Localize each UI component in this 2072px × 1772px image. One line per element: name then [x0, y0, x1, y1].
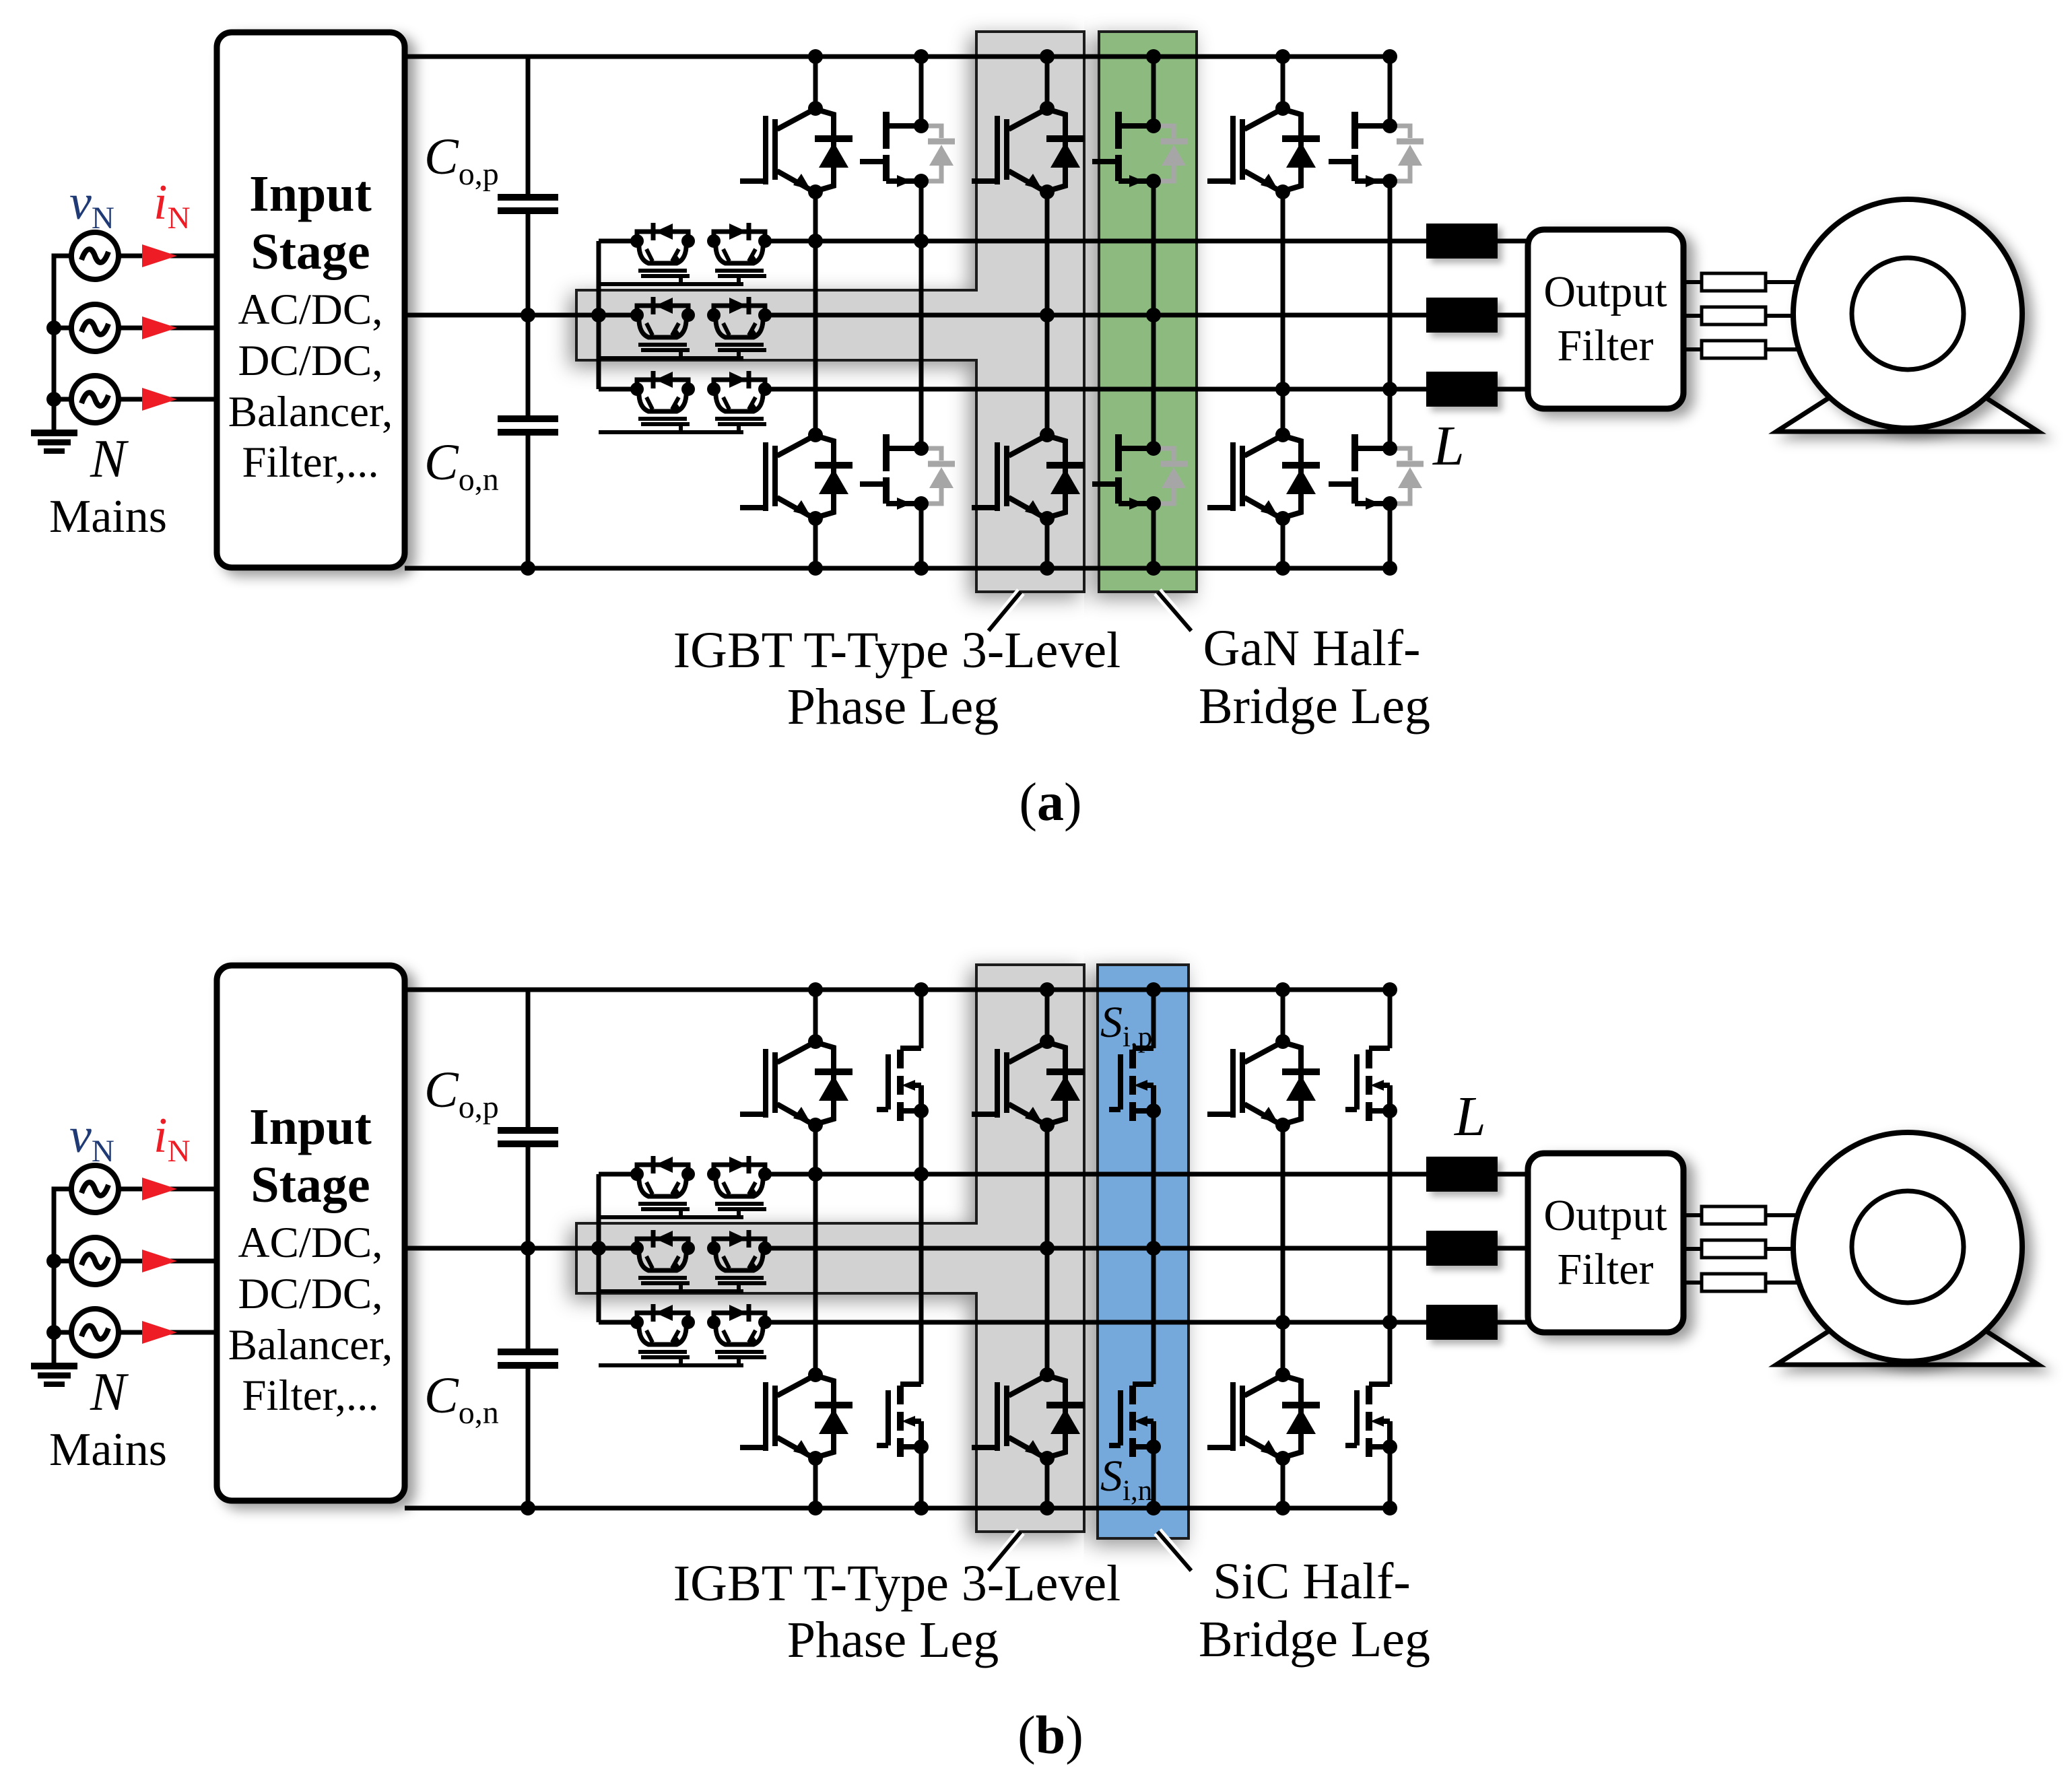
node: capacitor midpoint junction (a) [521, 308, 535, 322]
node: IGBT leg 2 rail junctions (a) [1040, 49, 1055, 64]
inductor L phase 3 (b) [1426, 1305, 1498, 1340]
node: phase2 row junctions (a) [1040, 308, 1055, 322]
node: IGBT leg 2 rail junctions (b) [1040, 982, 1055, 997]
wire: half-bridge leg 2 vertical (b) [1151, 990, 1156, 1048]
wire: Co,p (b) lower lead [526, 1147, 531, 1248]
node: half-bridge leg 2 rail junctions (b) [1146, 982, 1161, 997]
svg-text:Bridge Leg: Bridge Leg [1199, 678, 1430, 735]
svg-text:Balancer,: Balancer, [228, 1321, 393, 1369]
wire: phase 3 inductor-to-filter lead (b) [1498, 1320, 1528, 1325]
wire: bidirectional switch row 3 left lead (b) [599, 1320, 637, 1325]
inductor L phase 1 (b) [1426, 1157, 1498, 1192]
transistor IGBT T2n with diode (a) [972, 436, 1084, 517]
inductor L phase 2 (a) [1426, 298, 1498, 333]
wire: phase 1 inductor-to-filter lead (b) [1498, 1172, 1528, 1177]
transistor bidirectional S2a (a) [637, 306, 690, 350]
wire: phase 2 output row (b) [765, 1246, 1426, 1251]
svg-text:Filter: Filter [1558, 321, 1654, 370]
transistor GaN Q3p with body diode (a) [1392, 126, 1424, 181]
wire: DC midpoint rail (b) [405, 1246, 637, 1251]
voltage source V1 (b) [71, 1165, 119, 1213]
wire: half-bridge leg 1 vertical (b) [919, 990, 924, 1048]
transistor SiC Q3p (b) [1345, 1048, 1390, 1121]
svg-text:IGBT T-Type 3-Level: IGBT T-Type 3-Level [673, 1555, 1121, 1612]
transistor GaN Q1p with body diode (a) [923, 126, 955, 181]
wire: IGBT leg 1 vertical (a) [813, 57, 818, 108]
wire: bidirectional switch row 1 left lead (b) [599, 1172, 637, 1177]
transistor IGBT T3n with diode (a) [1207, 436, 1320, 517]
wire: positive DC rail (b) [405, 988, 1390, 992]
transistor SiC Q2n (b) [1109, 1384, 1154, 1457]
wire: phase 1 output row (b) [765, 1172, 1426, 1177]
node: half-bridge leg 3 rail junctions (a) [1382, 49, 1397, 64]
svg-text:Stage: Stage [250, 224, 370, 280]
svg-text:AC/DC,: AC/DC, [238, 285, 383, 334]
leader line half-bridge label (a) [1158, 592, 1191, 631]
inductor L phase 3 (a) [1426, 372, 1498, 407]
wire: bidirectional switch row 2 left lead (b) [599, 1246, 637, 1251]
wire: phase 1 input lead (b) [119, 1187, 217, 1192]
wire: Co,n (b) lower lead [526, 1368, 531, 1508]
wire: phase 3 input lead (a) [119, 397, 217, 402]
transistor bidirectional S1a (b) [637, 1165, 690, 1209]
wire: phase 3 input lead (b) [119, 1330, 217, 1335]
leader line T-type label (b) [989, 1532, 1021, 1571]
node: highlighted half-bridge leg region (b) [1098, 965, 1189, 1538]
node: neutral junction 2 (b) [46, 1254, 61, 1268]
voltage source V2 (a) [71, 304, 119, 351]
wire: motor lead 3 (b) [1683, 1281, 1702, 1285]
current arrow iN phase 1 (a) [142, 244, 177, 267]
output filter box (a) [1528, 230, 1683, 409]
transistor SiC Q1p (b) [877, 1048, 921, 1121]
transistor IGBT T1p with diode (a) [740, 110, 853, 191]
wire: neutral bus (b) [54, 1189, 71, 1364]
transistor SiC Q2p (b) [1109, 1048, 1154, 1121]
current arrow iN phase 2 (b) [142, 1250, 177, 1272]
wire: Co,p (a) upper lead [526, 57, 531, 195]
wire: IGBT leg 3 vertical (b) [1281, 990, 1285, 1042]
wire: midpoint connector vertical (a) [597, 241, 601, 389]
transistor bidirectional S3b (a) [714, 380, 766, 424]
wire: motor lead 1 (a) [1683, 280, 1702, 284]
wire: neutral bus (a) [54, 256, 71, 431]
wire: motor lead 2 (b) [1683, 1247, 1702, 1251]
transistor bidirectional S1a (a) [637, 232, 690, 276]
svg-text:Balancer,: Balancer, [228, 388, 393, 436]
transistor bidirectional S2b (b) [714, 1239, 766, 1283]
node: IGBT leg 1 rail junctions (b) [808, 982, 823, 997]
transistor GaN Q1n with body diode (a) [923, 448, 955, 504]
transistor SiC Q1n (b) [877, 1384, 921, 1457]
node: phase3 row junctions (a) [1275, 382, 1290, 397]
transistor IGBT T3n with diode (b) [1207, 1376, 1320, 1457]
node: phase2 row junctions (b) [1040, 1241, 1055, 1256]
svg-text:Bridge Leg: Bridge Leg [1199, 1611, 1430, 1668]
output filter box (b) [1528, 1153, 1683, 1332]
wire: phase 1 input lead (a) [119, 254, 217, 259]
motor body (a) [1793, 199, 2022, 428]
current arrow iN phase 1 (b) [142, 1178, 177, 1200]
voltage source V1 (a) [71, 232, 119, 279]
motor inner circle (b) [1852, 1191, 1964, 1303]
svg-text:L: L [1454, 1085, 1486, 1148]
node: IGBT leg 3 rail junctions (a) [1275, 49, 1290, 64]
transistor bidirectional S2a (b) [637, 1239, 690, 1283]
svg-text:DC/DC,: DC/DC, [238, 337, 383, 385]
voltage source V3 (a) [71, 376, 119, 423]
wire: midpoint connector vertical (b) [597, 1174, 601, 1322]
capacitor Co,n (a) [498, 419, 558, 432]
node: highlighted gray T-type leg region (b) [576, 965, 1084, 1532]
voltage source V3 (b) [71, 1309, 119, 1356]
wire: phase 3 inductor-to-filter lead (a) [1498, 387, 1528, 392]
input stage box (a) [217, 32, 405, 568]
node: neutral junction 3 (a) [46, 392, 61, 407]
terminal 3 (b) [1702, 1274, 1766, 1291]
wire: half-bridge leg 1 vertical (a) [919, 57, 924, 126]
motor inner circle (a) [1852, 258, 1964, 370]
motor pedestal (b) [1776, 1281, 2038, 1365]
wire: phase 2 inductor-to-filter lead (a) [1498, 313, 1528, 318]
wire: bidirectional switch row 1 left lead (a) [599, 239, 637, 244]
node: capacitor midpoint junction (b) [521, 1241, 535, 1256]
svg-text:GaN Half-: GaN Half- [1203, 620, 1421, 677]
wire: motor lead 3 (a) [1683, 347, 1702, 351]
node: IGBT leg 3 rail junctions (b) [1275, 982, 1290, 997]
node: phase1 row junctions (b) [808, 1167, 823, 1182]
node: phase3 row junctions (b) [1275, 1315, 1290, 1330]
terminal 1 (b) [1702, 1206, 1766, 1224]
transistor bidirectional S3a (a) [637, 380, 690, 424]
svg-text:Stage: Stage [250, 1157, 370, 1213]
wire: bidirectional switch row 2 left lead (a) [599, 313, 637, 318]
terminal 1 (a) [1702, 273, 1766, 291]
node: half-bridge leg 1 rail junctions (a) [914, 49, 929, 64]
node: Co,n negative rail junction (b) [521, 1501, 535, 1515]
transistor bidirectional S3a (b) [637, 1313, 690, 1357]
node: neutral junction 3 (b) [46, 1325, 61, 1340]
wire: Co,n (a) upper lead [526, 315, 531, 416]
node: half-bridge leg 1 rail junctions (b) [914, 982, 929, 997]
wire: IGBT leg 3 vertical (a) [1281, 57, 1285, 108]
wire: positive DC rail (a) [405, 55, 1390, 59]
svg-text:Output: Output [1543, 1191, 1667, 1240]
transistor SiC Q3n (b) [1345, 1384, 1390, 1457]
transistor IGBT T3p with diode (a) [1207, 110, 1320, 191]
capacitor Co,p (a) [498, 197, 558, 211]
wire: bidirectional switch row 2 gate bus (b) [599, 1289, 743, 1293]
terminal 2 (b) [1702, 1240, 1766, 1258]
transistor bidirectional S2b (a) [714, 306, 766, 350]
wire: motor lead 1 (b) [1683, 1213, 1702, 1217]
svg-text:Input: Input [249, 1099, 372, 1155]
transistor IGBT T2p with diode (a) [972, 110, 1084, 191]
wire: phase 3 output row (b) [765, 1320, 1426, 1325]
node: Co,n negative rail junction (a) [521, 561, 535, 576]
capacitor Co,n (b) [498, 1352, 558, 1365]
inductor L phase 2 (b) [1426, 1231, 1498, 1266]
terminal 2 (a) [1702, 307, 1766, 325]
terminal 3 (a) [1702, 341, 1766, 358]
svg-text:N: N [90, 430, 129, 489]
motor body (b) [1793, 1132, 2022, 1361]
wire: phase 1 output row (a) [765, 239, 1426, 244]
node: neutral junction 2 (a) [46, 320, 61, 335]
wire: Co,p (b) upper lead [526, 990, 531, 1128]
svg-text:Filter,...: Filter,... [242, 438, 378, 487]
capacitor Co,p (b) [498, 1130, 558, 1144]
transistor IGBT T1n with diode (a) [740, 436, 853, 517]
wire: phase 2 input lead (b) [119, 1259, 217, 1264]
ground (b) [31, 1366, 77, 1384]
svg-text:Filter,...: Filter,... [242, 1371, 378, 1420]
svg-text:Phase Leg: Phase Leg [787, 679, 999, 735]
transistor GaN Q3n with body diode (a) [1392, 448, 1424, 504]
svg-text:IGBT T-Type 3-Level: IGBT T-Type 3-Level [673, 622, 1121, 679]
svg-text:Filter: Filter [1558, 1245, 1654, 1294]
wire: phase 2 input lead (a) [119, 326, 217, 331]
svg-text:Mains: Mains [49, 1424, 167, 1476]
voltage source V2 (b) [71, 1237, 119, 1285]
node: half-bridge leg 3 rail junctions (b) [1382, 982, 1397, 997]
wire: bidirectional switch row 3 left lead (a) [599, 387, 637, 392]
wire: Co,p (a) lower lead [526, 213, 531, 315]
wire: phase 2 output row (a) [765, 313, 1426, 318]
svg-text:SiC Half-: SiC Half- [1213, 1553, 1410, 1610]
node: midpoint connector junction (b) [591, 1241, 606, 1256]
transistor IGBT T1p with diode (b) [740, 1043, 853, 1124]
svg-text:N: N [90, 1363, 129, 1422]
svg-text:Phase Leg: Phase Leg [787, 1612, 999, 1668]
wire: bidirectional switch row 3 gate bus (a) [599, 430, 743, 434]
current arrow iN phase 3 (b) [142, 1321, 177, 1344]
wire: negative DC rail (b) [405, 1506, 1390, 1511]
svg-text:AC/DC,: AC/DC, [238, 1219, 383, 1267]
svg-text:DC/DC,: DC/DC, [238, 1270, 383, 1318]
transistor GaN Q2n with body diode (a) [1156, 448, 1187, 504]
leader line T-type label (a) [989, 592, 1021, 631]
wire: half-bridge leg 2 vertical (a) [1151, 57, 1156, 126]
input stage box (b) [217, 965, 405, 1501]
transistor IGBT T2p with diode (b) [972, 1043, 1084, 1124]
wire: phase 3 output row (a) [765, 387, 1426, 392]
node: IGBT leg 1 rail junctions (a) [808, 49, 823, 64]
current arrow iN phase 2 (a) [142, 316, 177, 339]
wire: bidirectional switch row 1 gate bus (a) [599, 282, 743, 286]
transistor IGBT T3p with diode (b) [1207, 1043, 1320, 1124]
wire: bidirectional switch row 2 gate bus (a) [599, 356, 743, 360]
transistor GaN Q2p with body diode (a) [1156, 126, 1187, 181]
wire: half-bridge leg 3 vertical (b) [1388, 990, 1393, 1048]
leader line half-bridge label (b) [1158, 1532, 1191, 1571]
wire: phase 2 inductor-to-filter lead (b) [1498, 1246, 1528, 1251]
svg-text:Input: Input [249, 166, 372, 222]
node: midpoint connector junction (a) [591, 308, 606, 322]
wire: half-bridge leg 3 vertical (a) [1388, 57, 1393, 126]
wire: IGBT leg 1 vertical (b) [813, 990, 818, 1042]
wire: DC midpoint rail (a) [405, 313, 637, 318]
node: phase1 row junctions (a) [808, 234, 823, 248]
node: highlighted gray T-type leg region (a) [576, 32, 1084, 592]
node: highlighted half-bridge leg region (a) [1099, 32, 1197, 592]
inductor L phase 1 (a) [1426, 224, 1498, 259]
ground (a) [31, 433, 77, 451]
transistor bidirectional S1b (a) [714, 232, 766, 276]
transistor bidirectional S3b (b) [714, 1313, 766, 1357]
motor pedestal (a) [1776, 347, 2038, 432]
transistor IGBT T1n with diode (b) [740, 1376, 853, 1457]
svg-text:L: L [1432, 415, 1465, 477]
transistor bidirectional S1b (b) [714, 1165, 766, 1209]
wire: motor lead 2 (a) [1683, 314, 1702, 318]
svg-text:Mains: Mains [49, 491, 167, 543]
node: half-bridge leg 2 rail junctions (a) [1146, 49, 1161, 64]
wire: phase 1 inductor-to-filter lead (a) [1498, 239, 1528, 244]
wire: IGBT leg 2 vertical (a) [1045, 57, 1050, 108]
current arrow iN phase 3 (a) [142, 388, 177, 411]
transistor IGBT T2n with diode (b) [972, 1376, 1084, 1457]
wire: negative DC rail (a) [405, 566, 1390, 571]
svg-text:Output: Output [1543, 267, 1667, 316]
svg-text:(a): (a) [1019, 773, 1081, 832]
wire: Co,n (b) upper lead [526, 1248, 531, 1349]
wire: bidirectional switch row 1 gate bus (b) [599, 1215, 743, 1219]
wire: Co,n (a) lower lead [526, 435, 531, 568]
svg-text:(b): (b) [1017, 1706, 1083, 1765]
wire: bidirectional switch row 3 gate bus (b) [599, 1363, 743, 1367]
wire: IGBT leg 2 vertical (b) [1045, 990, 1050, 1042]
